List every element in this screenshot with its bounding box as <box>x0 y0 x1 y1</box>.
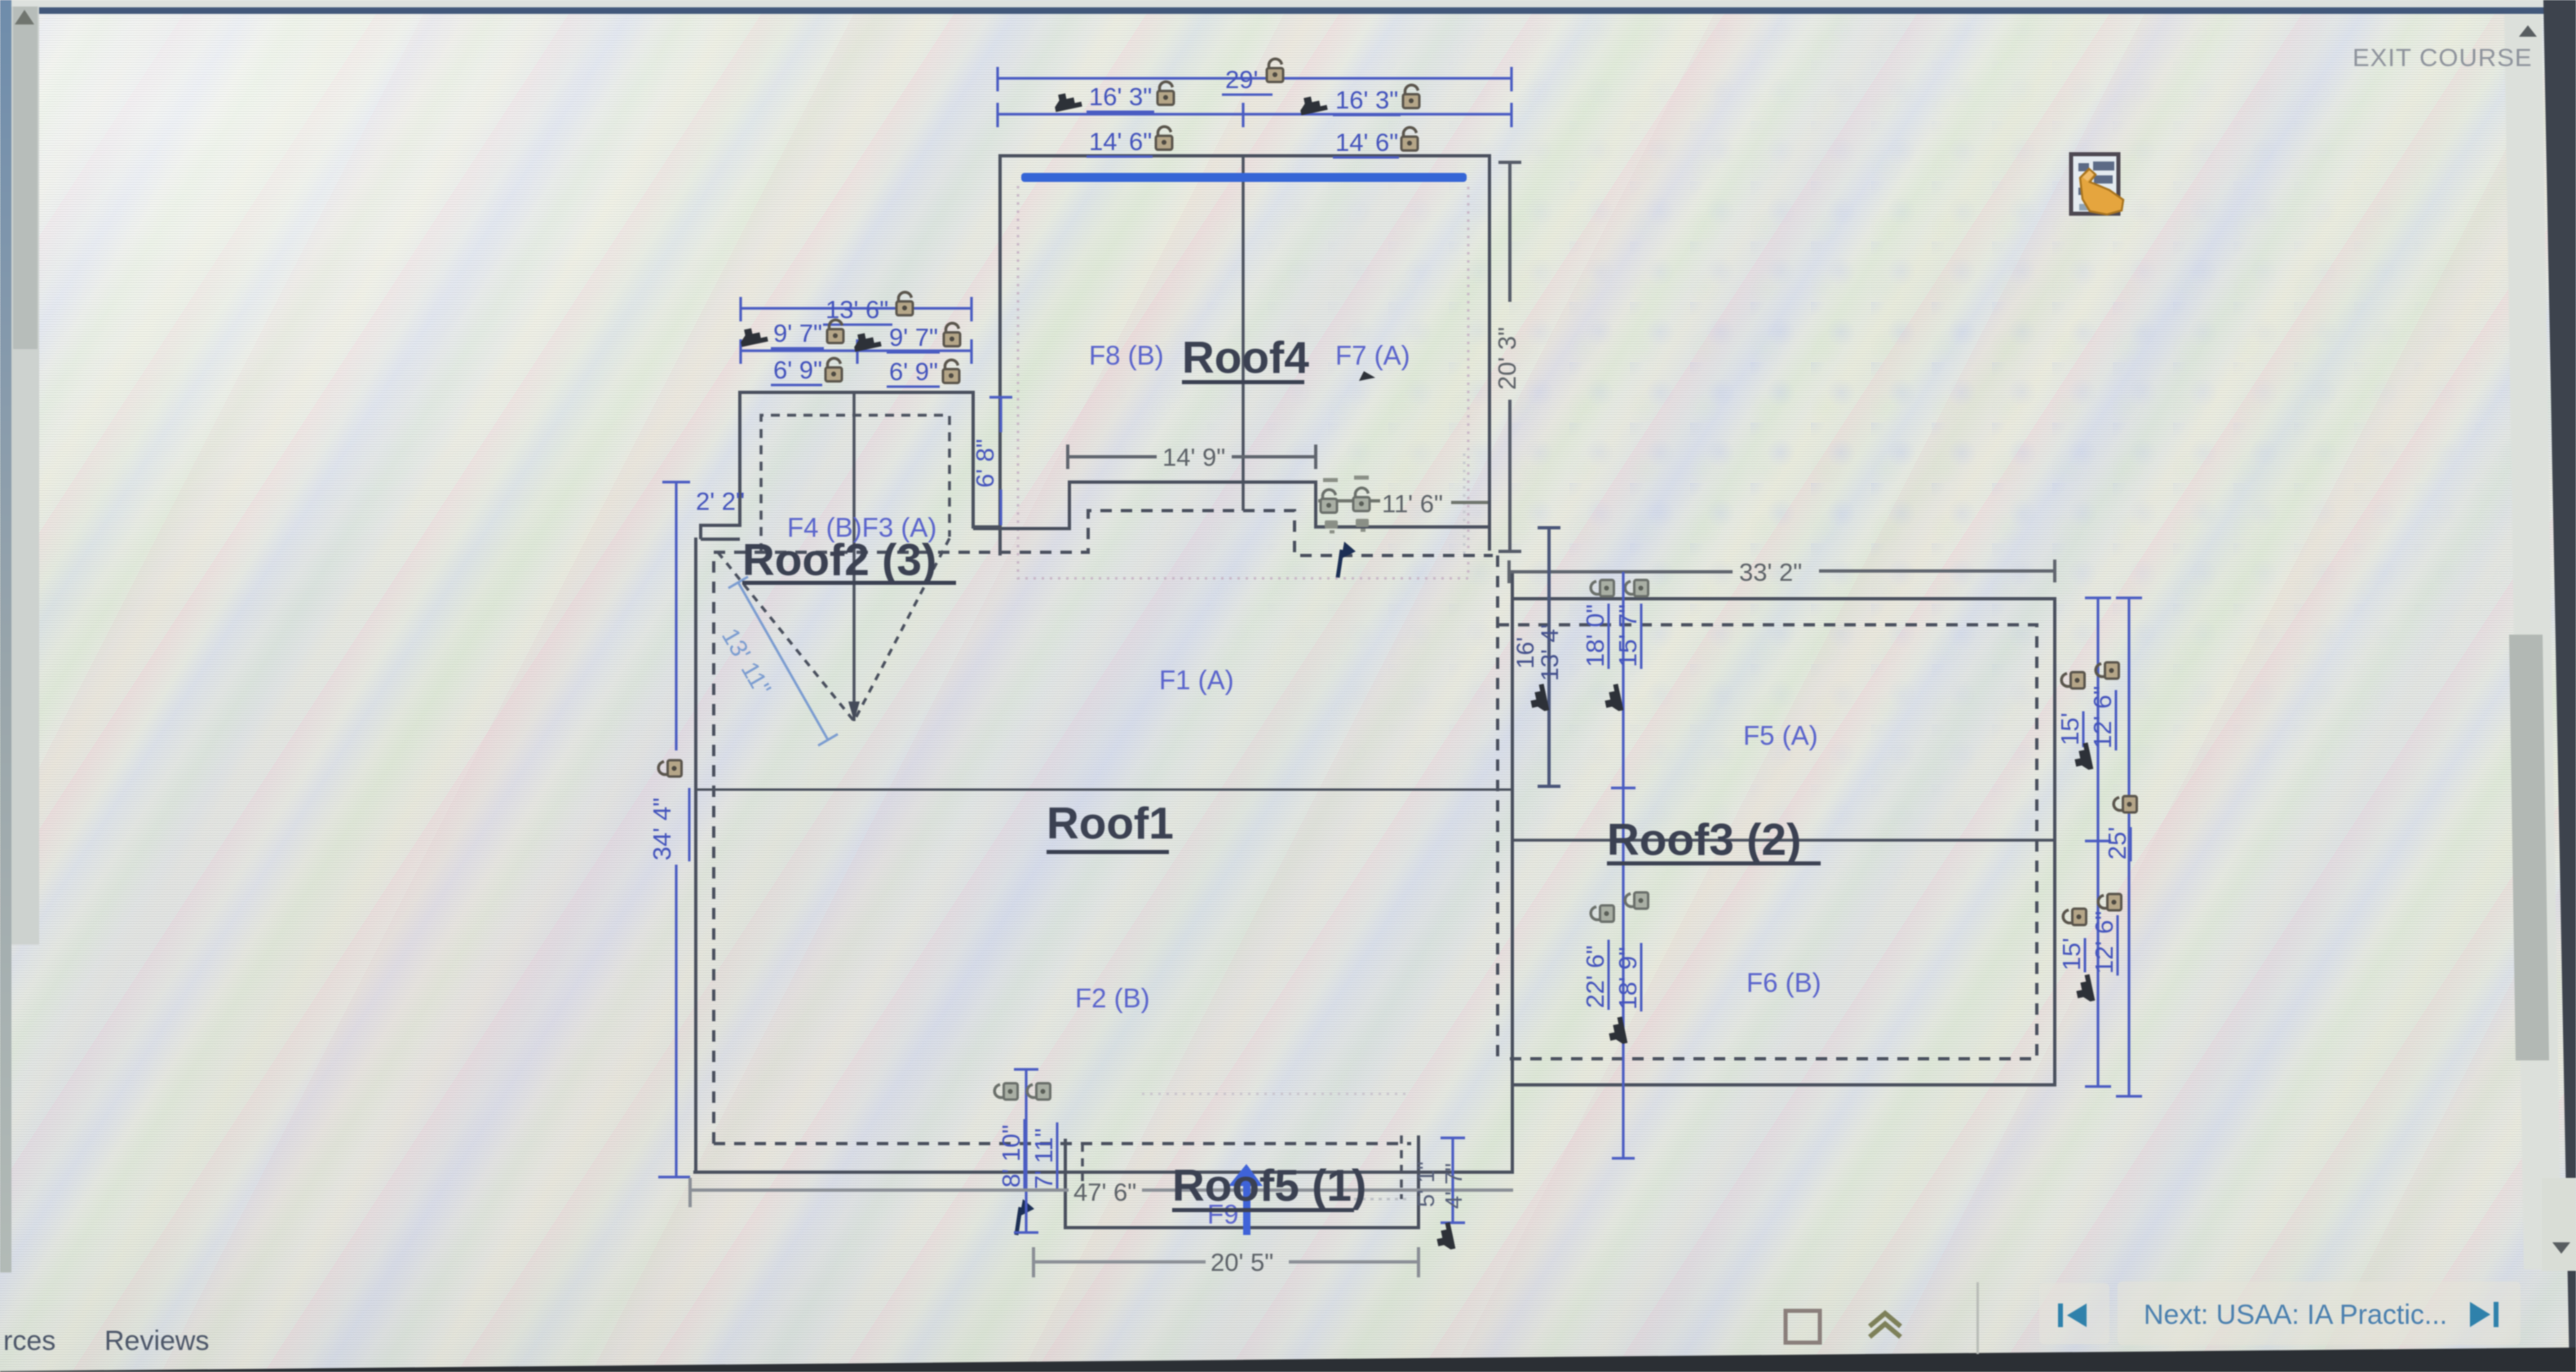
lock 34'4 <box>658 760 681 777</box>
svg-text:16' 3": 16' 3" <box>1335 86 1398 114</box>
svg-text:16': 16' <box>1512 637 1539 669</box>
Roof1 ridge line <box>696 789 1511 791</box>
bottom dark bar <box>0 1348 2576 1372</box>
svg-text:2' 2": 2' 2" <box>696 487 745 516</box>
roof4 ridge vertical <box>1242 156 1245 511</box>
top light strip <box>0 0 2549 8</box>
pitch icon 16'3 left <box>1052 91 1082 112</box>
bottom square checkbox icon <box>1786 1311 1820 1343</box>
dim 11'6 line <box>1318 501 1488 502</box>
lock 25' <box>2113 796 2136 812</box>
north arrow <box>1228 1164 1263 1235</box>
svg-text:F6 (B): F6 (B) <box>1746 967 1821 998</box>
wire: Roof1 outline solid <box>693 538 1514 1173</box>
roof4 outline solid <box>973 156 1489 555</box>
small gray marks below locks <box>1325 519 1369 533</box>
svg-text:Roof1: Roof1 <box>1047 798 1174 848</box>
lock 15' bottom <box>2063 909 2086 925</box>
lock 9'7 left <box>827 320 843 343</box>
svg-text:Reviews: Reviews <box>104 1326 209 1357</box>
dim 34'4 vertical <box>658 482 690 1177</box>
svg-text:15' 7": 15' 7" <box>1613 604 1642 667</box>
svg-text:14' 6": 14' 6" <box>1089 127 1152 156</box>
svg-text:20' 3": 20' 3" <box>1493 327 1521 390</box>
svg-text:15': 15' <box>2056 713 2084 746</box>
next icon <box>2470 1302 2499 1327</box>
svg-text:4' 7": 4' 7" <box>1441 1163 1467 1209</box>
roof2 valley arrowhead <box>848 701 860 721</box>
svg-text:18' 9": 18' 9" <box>1613 947 1642 1010</box>
dim 5'1/4'7 vertical <box>1441 1138 1465 1223</box>
svg-text:F1 (A): F1 (A) <box>1159 665 1234 695</box>
pitch 18'0 <box>1602 684 1623 713</box>
left scrollbar thumb <box>13 7 38 349</box>
svg-text:11' 6": 11' 6" <box>1382 489 1443 518</box>
eave dashed outline main <box>714 511 1498 1144</box>
svg-text:Roof3 (2): Roof3 (2) <box>1607 814 1801 865</box>
lock 14'6 left <box>1156 126 1172 149</box>
dim 20'3 vertical <box>1498 162 1521 551</box>
lock 11'6 b <box>1353 488 1370 511</box>
dim 8'10/7'11 vertical <box>1014 1069 1038 1233</box>
prev button <box>2039 1283 2109 1344</box>
roof5 dashed edge <box>1082 1135 1401 1199</box>
roof5 outline <box>1065 1135 1419 1228</box>
lock 6'9 left <box>825 358 842 381</box>
left blue edge strip <box>0 0 11 1272</box>
right dark bezel <box>2543 0 2576 1372</box>
pitch 22'6 <box>1606 1016 1627 1046</box>
svg-text:EXIT COURSE: EXIT COURSE <box>2352 43 2533 72</box>
svg-text:F5 (A): F5 (A) <box>1743 720 1818 750</box>
lock 29' <box>1267 59 1283 82</box>
svg-text:22' 6": 22' 6" <box>1581 945 1609 1008</box>
svg-text:15': 15' <box>2057 938 2086 971</box>
svg-text:29': 29' <box>1225 65 1258 94</box>
dim 20'5 line <box>1033 1247 1419 1277</box>
svg-text:6' 9": 6' 9" <box>773 356 822 384</box>
dim 18'0/15'7 vertical blue <box>1611 572 1635 1158</box>
small gray marks above locks <box>1323 476 1369 482</box>
svg-text:13' 11": 13' 11" <box>716 624 776 701</box>
lock 9'7 right <box>944 323 960 346</box>
pitch right top <box>2072 742 2093 772</box>
pitch icon 9'7 right <box>852 330 881 352</box>
roof2 ridge vertical <box>852 392 856 721</box>
dim 16'3/14'6 line <box>998 103 1512 127</box>
flag marker near roof4 bottom <box>1338 542 1356 578</box>
roof3 outline solid <box>1512 599 2055 1085</box>
svg-text:8' 10": 8' 10" <box>997 1125 1025 1188</box>
dim 13'11 diagonal <box>728 577 838 746</box>
roof4 blue eave bar <box>1021 173 1467 182</box>
svg-text:6' 9": 6' 9" <box>889 357 938 386</box>
roof2 dashed hip diagonals <box>718 538 949 721</box>
lock 6'9 right <box>943 360 959 383</box>
svg-text:Roof2 (3): Roof2 (3) <box>742 534 936 585</box>
dim 33'2 line <box>1509 560 2055 583</box>
pitch 5'1 <box>1434 1222 1455 1251</box>
svg-text:Roof4: Roof4 <box>1182 332 1309 383</box>
lock 16'3 right <box>1403 85 1419 108</box>
svg-text:9' 7": 9' 7" <box>889 323 938 352</box>
svg-text:F2 (B): F2 (B) <box>1075 983 1150 1013</box>
svg-text:18' 0": 18' 0" <box>1581 604 1609 667</box>
dim 16'/13'4 vertical <box>1538 528 1560 786</box>
light dotted segment below Roof5 <box>1338 1198 1407 1201</box>
svg-text:12' 6": 12' 6" <box>2090 911 2118 974</box>
bottom divider line <box>1976 1282 1979 1354</box>
lock 14'6 right <box>1401 127 1418 150</box>
small pitch under F7 <box>1359 371 1375 381</box>
dim 29' line <box>998 67 1512 91</box>
svg-text:Next: USAA: IA Practic...: Next: USAA: IA Practic... <box>2144 1299 2447 1330</box>
prev icon <box>2058 1303 2087 1327</box>
roof2 outline solid <box>701 392 1000 539</box>
lock 12'6 bottom <box>2098 894 2121 910</box>
svg-text:F7 (A): F7 (A) <box>1335 340 1410 370</box>
building bottom edge <box>693 1171 1514 1174</box>
dim 6'8 vertical <box>989 397 1012 525</box>
notes icon <box>2071 154 2123 215</box>
pitch 16 <box>1528 684 1549 713</box>
locks 22'6/18'9 <box>1591 905 1613 922</box>
svg-text:25': 25' <box>2103 827 2131 860</box>
bottom double chevron up <box>1870 1313 1901 1326</box>
svg-text:7' 11": 7' 11" <box>1029 1128 1058 1189</box>
locks 8'10/7'11 <box>994 1083 1017 1100</box>
light dotted line under F2 <box>1142 1093 1407 1095</box>
right scrollbar thumb <box>2509 635 2549 1060</box>
svg-text:14' 9": 14' 9" <box>1162 443 1225 471</box>
svg-text:33' 2": 33' 2" <box>1739 558 1802 586</box>
left scrollbar track <box>11 7 39 945</box>
svg-text:F8 (B): F8 (B) <box>1089 340 1164 370</box>
svg-text:16' 3": 16' 3" <box>1089 82 1152 111</box>
dim 13'6 line <box>741 297 972 321</box>
dim 9'7 line <box>741 339 972 364</box>
right dims: 15'/12'6 pair lines <box>2085 598 2142 1096</box>
right scrollbar track <box>2504 15 2561 1269</box>
svg-text:5' 1": 5' 1" <box>1414 1162 1440 1207</box>
lock 15' top <box>2061 672 2084 688</box>
pitch right bottom <box>2074 974 2095 1003</box>
building left edge <box>694 538 697 1173</box>
svg-text:Roof5 (1): Roof5 (1) <box>1172 1160 1366 1210</box>
svg-text:20' 5": 20' 5" <box>1211 1248 1273 1277</box>
svg-text:6' 8": 6' 8" <box>971 439 999 488</box>
lock 13'6 <box>896 292 913 315</box>
lock 16'3 left <box>1157 82 1174 104</box>
svg-text:34' 4": 34' 4" <box>648 798 676 861</box>
svg-text:rces: rces <box>3 1326 55 1357</box>
locks near 18'0 col <box>1591 580 1613 596</box>
svg-text:12' 6": 12' 6" <box>2088 686 2117 749</box>
flag marker near roof5 <box>1016 1199 1034 1235</box>
top navy border line <box>0 7 2548 14</box>
building right edge (Roof3 left) <box>1511 571 1514 1172</box>
svg-text:14' 6": 14' 6" <box>1335 128 1398 157</box>
next button <box>2118 1281 2521 1345</box>
lock 12'6 top <box>2096 662 2118 679</box>
dim 47'6 line <box>690 1178 1513 1207</box>
roof3 dashed inner rect <box>1498 625 2037 1059</box>
light dotted vertical near roof4 right <box>1463 454 1466 555</box>
roof2 dashed inner rect <box>761 415 949 552</box>
dim 14'9 line <box>1068 445 1316 469</box>
svg-text:9' 7": 9' 7" <box>773 319 822 347</box>
roof3 ridge <box>1512 839 2055 842</box>
svg-text:13' 4': 13' 4' <box>1537 624 1564 681</box>
lock 11'6 a <box>1321 489 1337 512</box>
right scrollbar up arrow <box>2519 25 2537 37</box>
light selection dotted rect around Roof4 <box>1018 186 1468 578</box>
svg-text:47' 6": 47' 6" <box>1073 1178 1136 1206</box>
left scrollbar up arrow <box>15 10 34 24</box>
pitch icon 16'3 right <box>1298 94 1327 115</box>
pitch icon 9'7 left <box>738 325 768 347</box>
